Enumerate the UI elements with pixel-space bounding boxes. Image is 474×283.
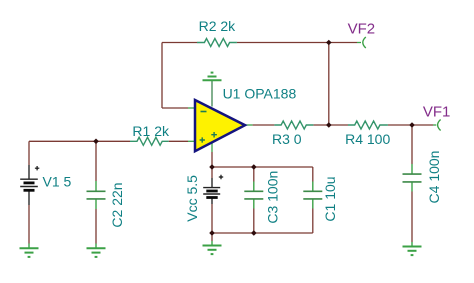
svg-text:R3 0: R3 0 xyxy=(272,131,302,147)
terminal VF1 xyxy=(438,120,441,131)
wire op-amp V- pin to ground above xyxy=(211,80,213,106)
label C2 22n xyxy=(109,182,125,227)
junction node rail top Vcc xyxy=(209,164,215,170)
label V1 5 xyxy=(42,174,71,190)
wire op-amp output to R3 xyxy=(245,124,275,126)
junction node feedback top xyxy=(326,40,332,46)
wire op-amp V+ pin down to rail xyxy=(211,142,213,167)
label R4 100 xyxy=(345,131,390,147)
wire C1 column xyxy=(312,167,314,233)
junction node rail bottom Vcc xyxy=(209,230,215,236)
svg-text:Vcc 5.5: Vcc 5.5 xyxy=(184,175,200,222)
wire inverting input xyxy=(162,107,195,109)
label C1 10u xyxy=(322,176,338,221)
capacitor C4 xyxy=(403,174,422,182)
resistor R3 xyxy=(274,121,313,129)
junction node rail bottom C3 xyxy=(251,230,257,236)
label U1 OPA188 xyxy=(223,86,297,102)
capacitor C1 xyxy=(303,191,322,199)
svg-text:C1 10u: C1 10u xyxy=(322,176,338,221)
label VF1 xyxy=(423,104,451,121)
label C4 100n xyxy=(426,151,442,204)
resistor R2 xyxy=(197,39,237,47)
wire Vcc column xyxy=(211,167,213,246)
wire C4 column xyxy=(411,125,413,247)
ground below V1 xyxy=(20,248,39,257)
wire V1 column xyxy=(28,141,30,248)
svg-text:U1 OPA188: U1 OPA188 xyxy=(223,86,297,102)
wire C2 column xyxy=(95,141,97,248)
label R1 2k xyxy=(132,123,170,139)
svg-text:R4 100: R4 100 xyxy=(345,131,390,147)
junction node rail top C3 xyxy=(251,164,257,170)
resistor R1 xyxy=(130,137,169,145)
ground above op-amp (flipped) xyxy=(203,73,222,81)
op-amp U1 OPA188 xyxy=(195,100,245,151)
wire bottom supply rail xyxy=(212,232,313,234)
battery Vcc xyxy=(203,175,223,198)
svg-text:VF1: VF1 xyxy=(423,104,451,121)
junction node input xyxy=(93,139,99,145)
label Vcc 5.5 xyxy=(184,175,200,222)
label VF2 xyxy=(348,21,376,38)
ground below Vcc xyxy=(203,246,222,255)
wire R3 to R4 xyxy=(313,124,348,126)
svg-text:C3 100n: C3 100n xyxy=(265,171,281,224)
wire R1 to non-inverting input xyxy=(169,140,195,142)
ground below C4 xyxy=(403,247,422,256)
wire VF2 stub xyxy=(357,42,361,44)
label C3 100n xyxy=(265,171,281,224)
battery V1 xyxy=(20,166,39,190)
junction node VF1 xyxy=(409,122,415,128)
ground below C2 xyxy=(87,248,106,257)
svg-text:C2 22n: C2 22n xyxy=(109,182,125,227)
wire top supply rail xyxy=(212,166,313,168)
wire feedback top row right of R2 to VF2 xyxy=(237,42,357,44)
svg-text:VF2: VF2 xyxy=(348,21,376,38)
svg-text:C4 100n: C4 100n xyxy=(426,151,442,204)
label R3 0 xyxy=(272,131,302,147)
wire feedback vertical xyxy=(161,43,163,109)
junction node output xyxy=(326,122,332,128)
svg-text:V1 5: V1 5 xyxy=(42,174,71,190)
label R2 2k xyxy=(199,18,237,34)
wire feedback top row left of R2 xyxy=(162,42,197,44)
wire C3 column xyxy=(253,167,255,233)
terminal VF2 xyxy=(363,37,366,48)
capacitor C2 xyxy=(87,191,106,199)
svg-text:R2 2k: R2 2k xyxy=(199,18,237,34)
wire output junction vertical xyxy=(328,43,330,126)
resistor R4 xyxy=(348,121,388,129)
wire V1 to node to R1 xyxy=(29,140,130,142)
capacitor C3 xyxy=(244,191,263,199)
wire R4 to VF1 xyxy=(388,124,436,126)
svg-text:R1 2k: R1 2k xyxy=(132,123,170,139)
